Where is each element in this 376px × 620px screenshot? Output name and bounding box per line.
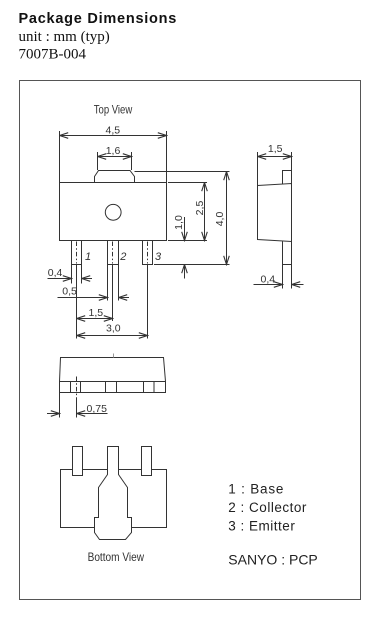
- dim 1,5: [77, 318, 113, 320]
- dim 0,75 right leader: [77, 413, 108, 415]
- front view: seating plane line: [60, 381, 166, 383]
- bottom view: lead 3: [142, 447, 152, 476]
- front view: left edge extension: [59, 393, 61, 418]
- top view: lead 3 (pin 3): [143, 241, 153, 265]
- svg-text:2: 2: [119, 251, 126, 263]
- side view dim 0,4 right leader: [292, 284, 304, 286]
- extension line: tab top level: [135, 171, 230, 173]
- dim 2,5: [204, 183, 206, 241]
- svg-text:3 : Emitter: 3 : Emitter: [228, 519, 295, 534]
- outer frame: [20, 81, 361, 600]
- svg-text:4,5: 4,5: [105, 125, 120, 137]
- svg-text:Top View: Top View: [94, 103, 133, 116]
- lead 1 center line: [76, 242, 78, 264]
- svg-text:0,75: 0,75: [87, 403, 108, 415]
- front view: lead 1 stub: [71, 382, 81, 393]
- svg-text:1,6: 1,6: [106, 145, 121, 157]
- side view dim 1,5 extension lines: [257, 152, 259, 186]
- dim 4,5 extension lines: [59, 131, 61, 183]
- dim 4,0: [226, 172, 228, 265]
- front view: lead 3 stub: [144, 382, 155, 393]
- svg-text:1,0: 1,0: [173, 215, 185, 230]
- svg-text:0,5: 0,5: [62, 285, 77, 297]
- svg-text:Package Dimensions: Package Dimensions: [19, 11, 178, 27]
- top view: lead 2 (pin 2): [108, 241, 119, 265]
- extension line: body top level: [168, 182, 207, 184]
- lead 2 center line: [112, 242, 114, 264]
- dim 0,4 right leader: [82, 278, 93, 280]
- bottom view: lead 2 and collector pad: [95, 447, 132, 540]
- side view lead edge extensions: [282, 265, 284, 289]
- top view: package body: [60, 183, 167, 241]
- side view dim 0,4 left leader: [254, 284, 283, 286]
- svg-text:0,4: 0,4: [261, 274, 276, 286]
- dim 0,75 left leader: [47, 413, 60, 415]
- svg-text:SANYO : PCP: SANYO : PCP: [228, 552, 317, 568]
- lead 1 edge extensions: [71, 265, 73, 284]
- front view: lead 2 stub: [106, 382, 117, 393]
- dim 1,0 leader below: [184, 265, 186, 279]
- lead 2 edge extensions: [107, 265, 109, 301]
- top view: lead 1 (pin 1): [72, 241, 82, 265]
- svg-text:1: 1: [85, 251, 91, 263]
- side view: lead: [283, 242, 292, 265]
- extension line: body bottom level: [168, 240, 207, 242]
- svg-text:unit : mm (typ): unit : mm (typ): [19, 29, 110, 45]
- svg-text:0,4: 0,4: [48, 267, 63, 279]
- svg-text:3,0: 3,0: [106, 323, 121, 335]
- lead center extensions below: [76, 265, 78, 339]
- svg-text:1,5: 1,5: [88, 307, 103, 319]
- top view: mounting tab: [95, 171, 135, 183]
- front view: tab tick: [113, 354, 115, 358]
- top view: index circle: [105, 204, 121, 220]
- svg-text:4,0: 4,0: [214, 212, 226, 227]
- dim 1,0 leader above: [184, 217, 186, 241]
- svg-text:2,5: 2,5: [194, 201, 206, 216]
- svg-text:7007B-004: 7007B-004: [19, 47, 87, 63]
- dim 0,5 right leader: [119, 297, 130, 299]
- svg-text:2 : Collector: 2 : Collector: [228, 500, 307, 515]
- extension line: lead tip level: [154, 264, 230, 266]
- dim 0,5 left leader: [58, 297, 108, 299]
- side view: body: [258, 184, 292, 242]
- lead 3 center line: [147, 242, 149, 264]
- front view: body outline: [60, 358, 166, 393]
- dim 3,0: [77, 335, 148, 337]
- svg-text:1 : Base: 1 : Base: [228, 482, 284, 497]
- dim 1,6 extension lines: [97, 152, 99, 170]
- dim 0,4 left leader: [48, 278, 72, 280]
- svg-text:3: 3: [155, 251, 162, 263]
- svg-text:1,5: 1,5: [268, 143, 283, 155]
- bottom view: body: [61, 470, 167, 528]
- dim 4,5: [60, 135, 167, 137]
- dim 1,6: [98, 156, 132, 158]
- svg-text:Bottom View: Bottom View: [88, 551, 145, 564]
- side view: tab: [283, 171, 292, 185]
- bottom view: lead 1: [73, 447, 83, 476]
- front view: lead 1 center line: [76, 377, 78, 398]
